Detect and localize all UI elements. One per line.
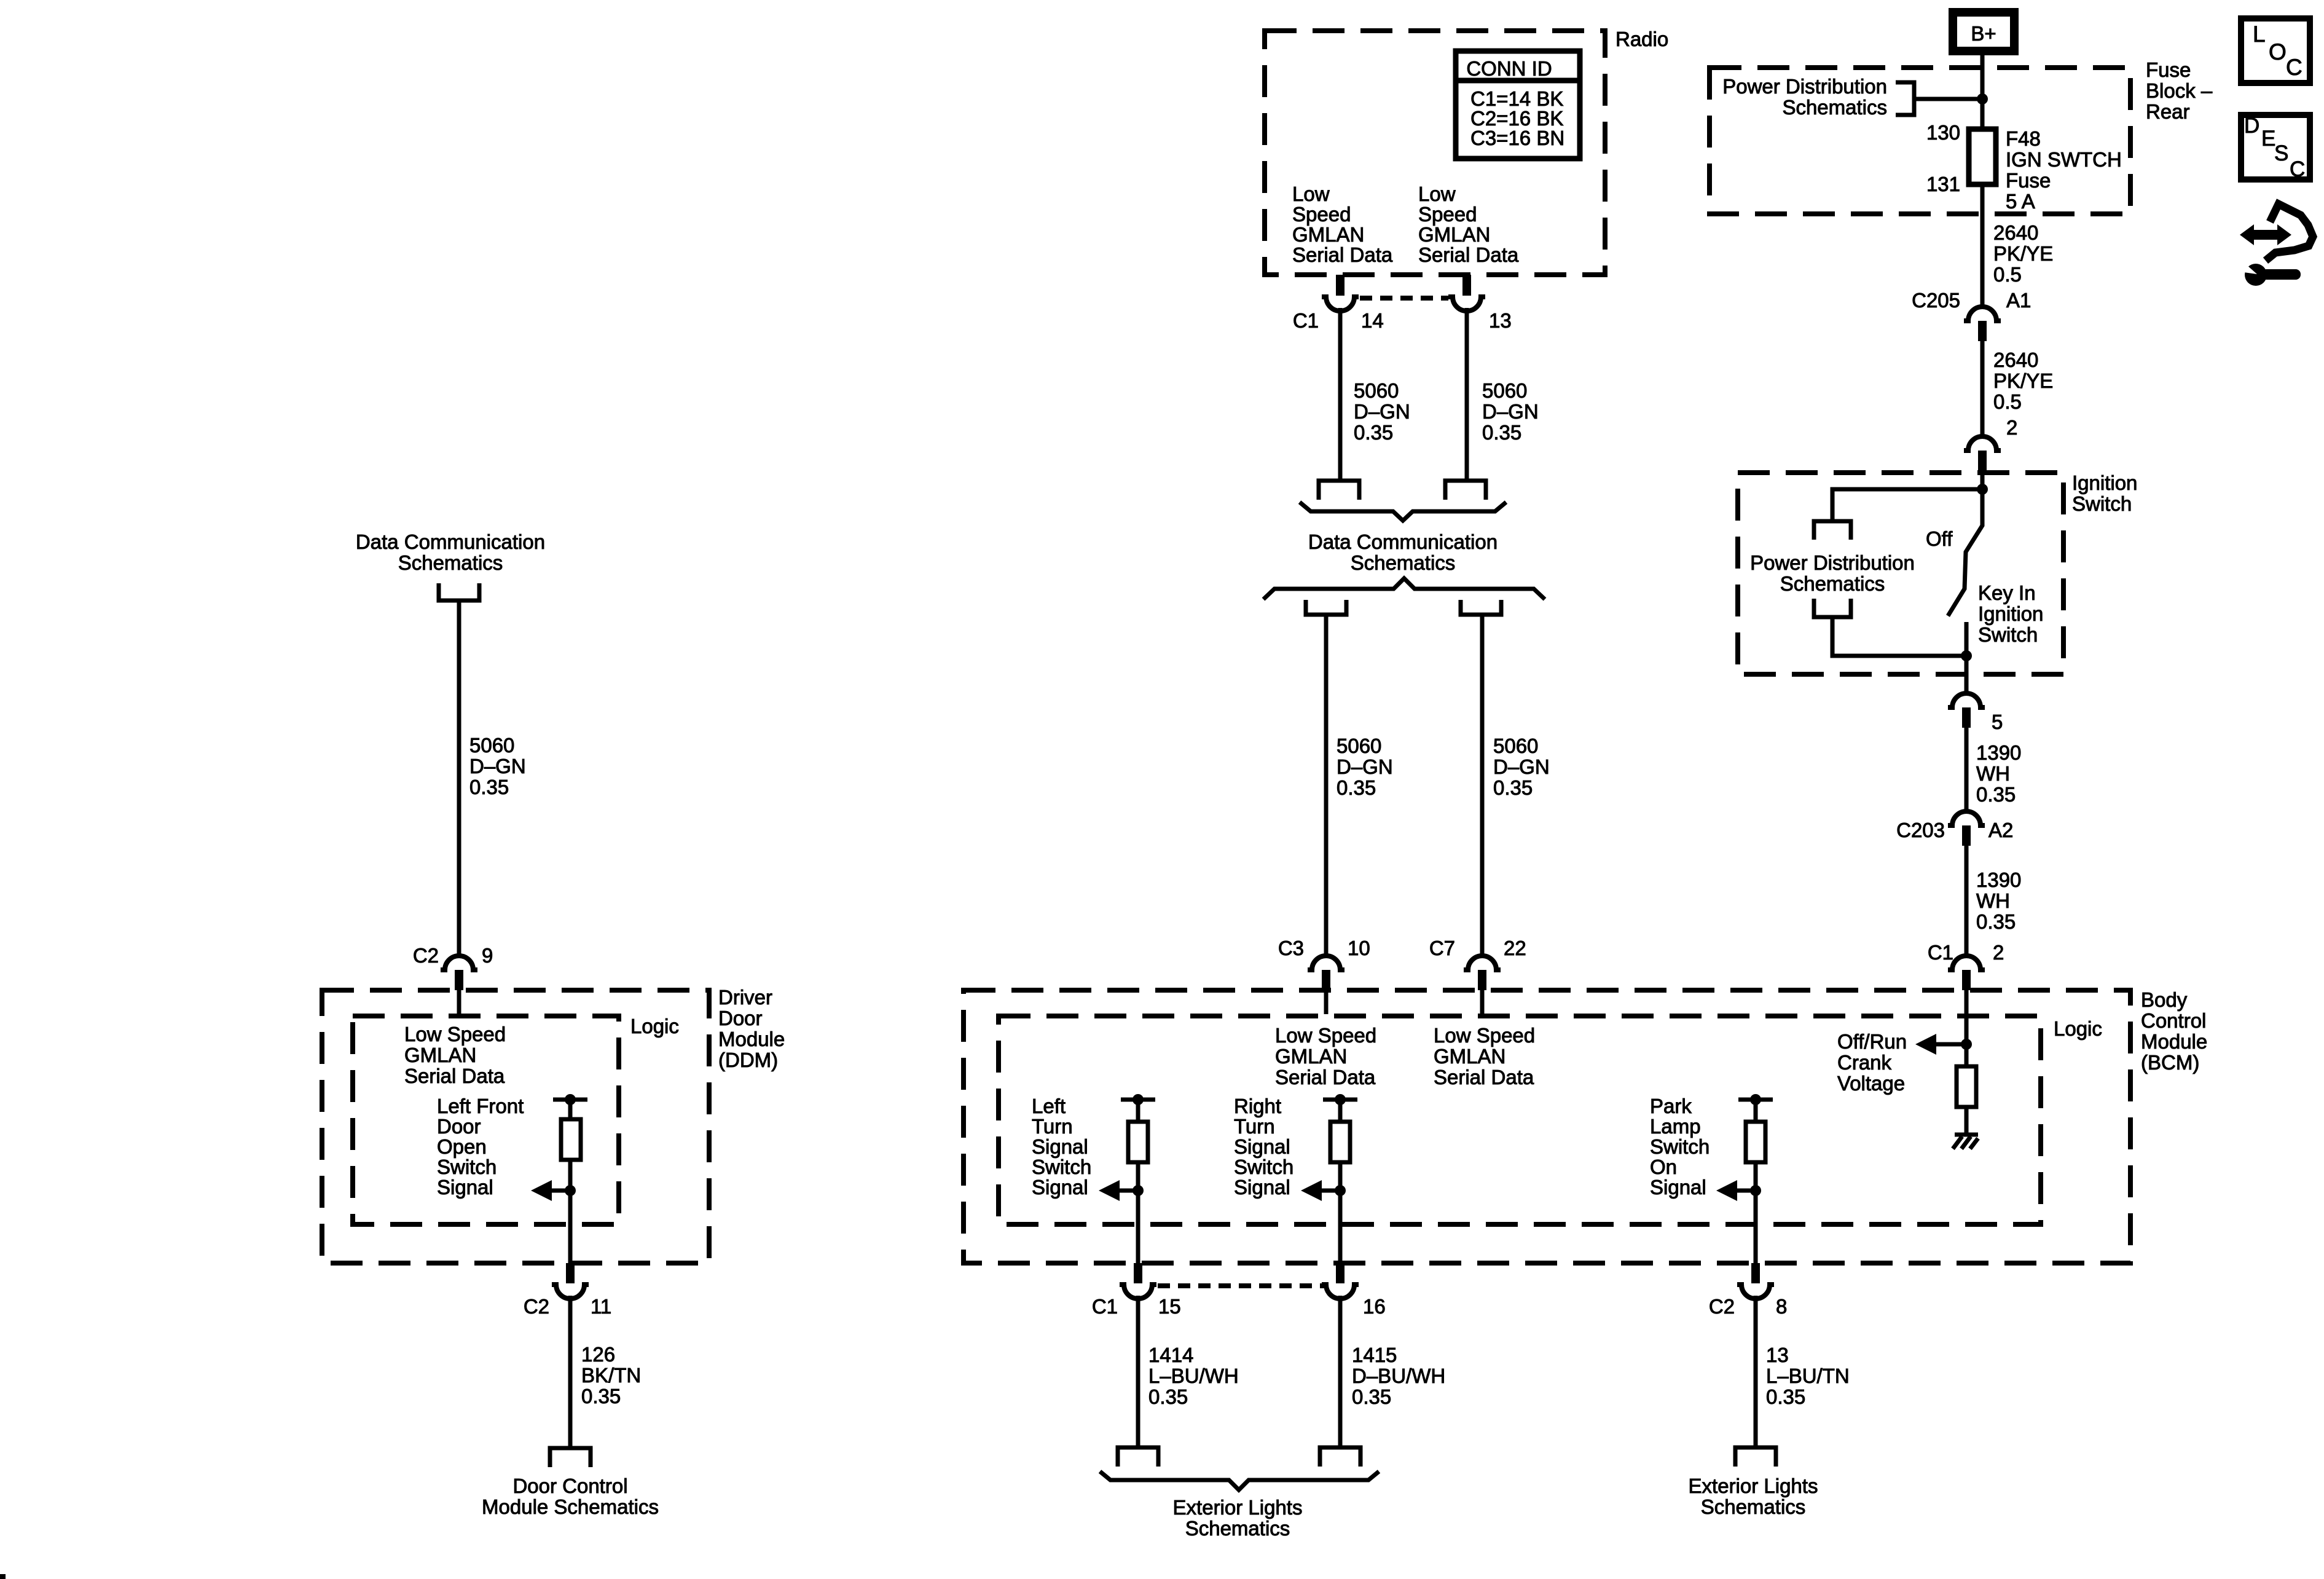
wire: T-bar to resistor	[568, 1100, 573, 1119]
svg-text:Signal: Signal	[1234, 1135, 1290, 1158]
connector C205 pin A1	[1912, 289, 2031, 341]
connector C1 pin 16 (BCM bottom)	[1322, 1263, 1386, 1318]
arrow: Left Turn Signal Switch Signal	[1099, 1180, 1138, 1201]
bracket: power distribution reference upper	[1814, 521, 1851, 540]
wire: DDM internal pull-up T-bar	[553, 1098, 587, 1102]
wire: switch lower contact	[1965, 622, 1969, 694]
icon: LOC reference box	[2241, 18, 2310, 83]
svg-text:Switch: Switch	[437, 1156, 497, 1178]
svg-text:F48: F48	[2006, 127, 2041, 150]
svg-text:Logic: Logic	[2054, 1017, 2102, 1040]
arrow: Off/Run Crank Voltage	[1915, 1034, 1966, 1055]
terminal: off-page destination (1414)	[1118, 1447, 1158, 1467]
svg-text:Signal: Signal	[437, 1176, 493, 1199]
bracket: power distribution reference lower	[1814, 599, 1851, 617]
resistor: right-turn pull-up	[1330, 1122, 1350, 1162]
svg-text:Park: Park	[1650, 1095, 1692, 1117]
svg-text:11: 11	[591, 1295, 611, 1318]
label: wire 1390 WH 0.35 (upper)	[1976, 741, 2021, 806]
svg-text:5060: 5060	[1493, 734, 1538, 757]
svg-text:C: C	[2286, 55, 2302, 80]
label: wire 5060 D-GN 0.35	[469, 734, 526, 798]
svg-text:Door: Door	[718, 1007, 763, 1030]
svg-text:(BCM): (BCM)	[2141, 1051, 2199, 1074]
svg-text:5060: 5060	[1354, 379, 1399, 402]
icon: diagnostic arrow with wrench	[2235, 204, 2313, 286]
resistor: left-turn pull-up	[1128, 1122, 1148, 1162]
svg-text:Right: Right	[1234, 1095, 1281, 1117]
svg-text:Left Front: Left Front	[437, 1095, 524, 1117]
svg-text:Crank: Crank	[1837, 1051, 1892, 1074]
node: Low Speed GMLAN Serial Data (Radio pin 13)	[1418, 183, 1519, 266]
svg-text:IGN SWTCH: IGN SWTCH	[2006, 148, 2122, 171]
svg-text:Schematics: Schematics	[398, 551, 503, 574]
wire: park-lamp pull-up T-bar	[1738, 1098, 1773, 1102]
svg-text:GMLAN: GMLAN	[1275, 1045, 1347, 1068]
svg-text:Schematics: Schematics	[1782, 96, 1887, 119]
wire: 1390 WH from pin 5 to C203	[1965, 728, 1969, 811]
brace: above lower wires pointing up	[1263, 578, 1545, 599]
svg-text:Serial Data: Serial Data	[404, 1065, 505, 1087]
node: Door Control Module Schematics label	[482, 1475, 659, 1518]
bracket: power distribution schematics reference	[1896, 82, 1914, 115]
svg-text:131: 131	[1926, 173, 1960, 195]
svg-text:Serial Data: Serial Data	[1418, 243, 1519, 266]
svg-text:(DDM): (DDM)	[718, 1049, 778, 1071]
wire: fuse to C205	[1981, 184, 1985, 306]
svg-text:Open: Open	[437, 1135, 487, 1158]
resistor: DDM door switch pull-up	[561, 1119, 581, 1160]
svg-text:130: 130	[1926, 121, 1960, 144]
svg-text:5060: 5060	[1337, 734, 1381, 757]
svg-text:Off: Off	[1926, 527, 1953, 550]
svg-text:1390: 1390	[1976, 868, 2021, 891]
svg-text:Rear: Rear	[2146, 100, 2190, 123]
svg-text:C1: C1	[1092, 1295, 1118, 1318]
junction: off/run crank voltage tap	[1961, 1039, 1972, 1050]
svg-text:0.35: 0.35	[1337, 776, 1376, 799]
svg-text:Switch: Switch	[1650, 1135, 1710, 1158]
svg-text:D–GN: D–GN	[1493, 755, 1550, 778]
svg-text:C203: C203	[1896, 819, 1945, 841]
wire: 13 L-BU/TN from C2-8 down	[1754, 1296, 1758, 1448]
svg-text:9: 9	[482, 944, 493, 967]
svg-text:126: 126	[581, 1343, 615, 1366]
wire: 1414 L-BU/WH from C1-15 down	[1136, 1296, 1140, 1448]
svg-text:O: O	[2269, 39, 2287, 65]
label: wire 1414 L-BU/WH 0.35	[1148, 1344, 1239, 1408]
fuse F48 IGN SWTCH 5A	[1969, 129, 1996, 184]
svg-text:C2: C2	[413, 944, 439, 967]
node: Power Distribution Schematics (fuse block)	[1722, 75, 1887, 119]
connector C1 pin 15 (BCM bottom)	[1092, 1263, 1181, 1318]
svg-text:Exterior Lights: Exterior Lights	[1689, 1475, 1818, 1497]
junction: DDM pull-up top	[565, 1094, 576, 1105]
label: F48 IGN SWTCH Fuse 5 A	[2006, 127, 2122, 213]
wire: left-turn pull-up T-bar	[1121, 1098, 1155, 1102]
wire: 5060 D-GN from Radio pin 14 down	[1338, 308, 1343, 479]
svg-text:5060: 5060	[1482, 379, 1527, 402]
module box: Driver Door Module (DDM) outer dashed box	[322, 990, 709, 1263]
label: wire 5060 D-GN 0.35 (radio right)	[1482, 379, 1539, 444]
module box: Radio dashed box	[1265, 31, 1605, 275]
svg-text:GMLAN: GMLAN	[404, 1044, 476, 1066]
wire: BCM C1-2 internal	[1965, 990, 1969, 1066]
svg-text:15: 15	[1158, 1295, 1181, 1318]
svg-text:22: 22	[1504, 937, 1526, 959]
wire: 1415 D-BU/WH from C1-16 down	[1338, 1296, 1343, 1448]
svg-text:C2: C2	[1709, 1295, 1735, 1318]
svg-text:0.35: 0.35	[1766, 1385, 1805, 1408]
svg-text:C7: C7	[1429, 937, 1455, 959]
label: wire 5060 D-GN 0.35 (to C3)	[1337, 734, 1393, 799]
connector C1 pin 2 (BCM top)	[1928, 941, 2004, 990]
node: Low Speed GMLAN Serial Data (BCM C7)	[1434, 1024, 1535, 1089]
svg-text:1390: 1390	[1976, 741, 2021, 764]
wire: 5060 D-GN to BCM C3-10	[1324, 615, 1329, 954]
svg-text:0.5: 0.5	[1993, 390, 2022, 413]
svg-text:5 A: 5 A	[2006, 190, 2035, 213]
svg-text:Serial Data: Serial Data	[1434, 1066, 1534, 1089]
svg-text:L–BU/TN: L–BU/TN	[1766, 1364, 1850, 1387]
arrow: Left Front Door Open Switch Signal (points left)	[531, 1180, 570, 1201]
resistor: BCM ignition input	[1957, 1066, 1976, 1107]
svg-text:Logic: Logic	[630, 1015, 679, 1038]
svg-text:BK/TN: BK/TN	[581, 1364, 641, 1387]
power symbol: B+	[1953, 12, 2014, 51]
label: Key In Ignition Switch	[1978, 581, 2043, 646]
svg-text:D–GN: D–GN	[1354, 400, 1410, 423]
label: Ignition Switch	[2072, 471, 2137, 515]
svg-text:Driver: Driver	[718, 986, 772, 1009]
svg-text:D: D	[2244, 114, 2259, 138]
logic box: BCM inner Logic dashed box	[999, 1016, 2041, 1224]
wire: resistor to BCM C2-8	[1754, 1162, 1758, 1263]
svg-text:Switch: Switch	[1978, 623, 2038, 646]
svg-text:Signal: Signal	[1032, 1176, 1088, 1199]
wire: resistor to BCM C1-16	[1338, 1162, 1343, 1263]
label: Fuse Block - Rear	[2146, 58, 2213, 123]
module box: Fuse Block - Rear dashed box	[1710, 68, 2130, 214]
svg-text:Signal: Signal	[1650, 1176, 1706, 1199]
table: CONN ID	[1456, 51, 1580, 159]
svg-text:Schematics: Schematics	[1701, 1495, 1806, 1518]
label: Driver Door Module (DDM)	[718, 986, 785, 1071]
terminal: off-page source (to BCM C7)	[1461, 600, 1501, 615]
junction: left-turn top	[1133, 1094, 1144, 1105]
label: wire 5060 D-GN 0.35 (radio left)	[1354, 379, 1410, 444]
junction: switch output node	[1961, 650, 1972, 661]
switch: ignition switch blade (Off position)	[1948, 489, 1982, 616]
terminal: off-page destination symbol (Door Control Module Schematics)	[550, 1448, 591, 1467]
module box: Body Control Module (BCM) outer dashed box	[964, 990, 2130, 1263]
svg-text:S: S	[2274, 141, 2288, 165]
junction: ignition switch common	[1977, 484, 1988, 495]
svg-text:0.35: 0.35	[1354, 421, 1393, 444]
terminal: off-page destination (radio right wire)	[1445, 481, 1486, 500]
svg-text:2640: 2640	[1993, 348, 2038, 371]
svg-text:5060: 5060	[469, 734, 514, 757]
label: wire 2640 PK/YE 0.5 (lower)	[1993, 348, 2053, 413]
svg-text:B+: B+	[1971, 22, 1996, 45]
svg-text:Signal: Signal	[1032, 1135, 1088, 1158]
svg-text:L–BU/WH: L–BU/WH	[1148, 1364, 1239, 1387]
svg-text:Fuse: Fuse	[2146, 58, 2191, 81]
svg-text:Schematics: Schematics	[1780, 572, 1885, 595]
junction: left-turn signal tap	[1133, 1185, 1144, 1196]
svg-text:PK/YE: PK/YE	[1993, 242, 2053, 265]
node: Right Turn Signal Switch Signal	[1234, 1095, 1294, 1199]
svg-text:Door: Door	[437, 1115, 481, 1138]
svg-text:D–GN: D–GN	[469, 755, 526, 778]
svg-text:Turn: Turn	[1032, 1115, 1073, 1138]
wire: bracket to switch output	[1832, 617, 1966, 656]
svg-text:GMLAN: GMLAN	[1292, 223, 1364, 246]
svg-text:GMLAN: GMLAN	[1434, 1045, 1505, 1068]
connector C203 pin A2	[1896, 811, 2013, 846]
svg-text:C: C	[2290, 157, 2305, 181]
svg-text:C3=16 BN: C3=16 BN	[1470, 127, 1564, 149]
svg-text:Turn: Turn	[1234, 1115, 1275, 1138]
connector: ignition switch pin 2	[1964, 416, 2017, 489]
svg-text:0.35: 0.35	[1976, 910, 2016, 933]
terminal: off-page destination (radio left wire)	[1319, 481, 1359, 500]
svg-text:Block –: Block –	[2146, 79, 2213, 102]
svg-text:D–GN: D–GN	[1337, 755, 1393, 778]
svg-text:E: E	[2261, 127, 2275, 151]
junction: DDM signal tap	[565, 1185, 576, 1196]
node: Left Turn Signal Switch Signal	[1032, 1095, 1091, 1199]
svg-text:Switch: Switch	[1234, 1156, 1294, 1178]
connector: ignition switch pin 5	[1948, 693, 2003, 733]
svg-text:PK/YE: PK/YE	[1993, 369, 2053, 392]
wire: 1390 WH from C203 to BCM C1-2	[1965, 846, 1969, 954]
svg-text:Key In: Key In	[1978, 581, 2036, 604]
svg-text:Ignition: Ignition	[1978, 602, 2043, 625]
svg-text:C1: C1	[1928, 941, 1953, 964]
wire: resistor to ground	[1965, 1107, 1969, 1134]
node: Power Distribution Schematics (ignition switch)	[1750, 551, 1915, 595]
wire: resistor to DDM C2-11	[568, 1160, 573, 1263]
label: wire 1415 D-BU/WH 0.35	[1352, 1344, 1445, 1408]
connector body: dashed link C1 pins 14-13	[1360, 296, 1448, 301]
svg-text:1414: 1414	[1148, 1344, 1193, 1366]
svg-text:Schematics: Schematics	[1351, 551, 1456, 574]
svg-text:16: 16	[1363, 1295, 1386, 1318]
svg-text:8: 8	[1776, 1295, 1787, 1318]
svg-text:2: 2	[1993, 941, 2004, 964]
svg-text:Exterior Lights: Exterior Lights	[1173, 1496, 1303, 1519]
label: wire 13 L-BU/TN 0.35	[1766, 1344, 1850, 1408]
brace: exterior lights group pointing down	[1100, 1471, 1379, 1490]
svg-text:Switch: Switch	[1032, 1156, 1091, 1178]
svg-text:Serial Data: Serial Data	[1275, 1066, 1376, 1089]
wire: resistor to BCM C1-15	[1136, 1162, 1140, 1263]
connector C1 pin 13 (Radio)	[1448, 275, 1512, 332]
node: Low Speed GMLAN Serial Data (Radio pin 14)	[1292, 183, 1393, 266]
arrow: Park Lamp Switch On Signal	[1716, 1180, 1756, 1201]
svg-text:A2: A2	[1988, 819, 2013, 841]
svg-text:WH: WH	[1976, 762, 2010, 785]
wire: 126 BK/TN from DDM C2-11 to Door Control Module Schematics	[568, 1296, 573, 1447]
svg-text:Low: Low	[1292, 183, 1330, 205]
node: Data Communication Schematics (middle label)	[1308, 530, 1498, 574]
svg-text:14: 14	[1361, 309, 1384, 332]
wire: bracket to B+ feed	[1914, 97, 1982, 101]
connector C7 pin 22 (BCM)	[1429, 937, 1526, 1014]
connector body: dashed link C1 pins 15-16	[1158, 1283, 1324, 1288]
svg-text:Power Distribution: Power Distribution	[1722, 75, 1887, 98]
resistor: park-lamp pull-up	[1746, 1122, 1765, 1162]
wire: B+ down into fuse block	[1981, 55, 1985, 129]
label: Body Control Module (BCM)	[2141, 988, 2207, 1074]
svg-text:Low Speed: Low Speed	[404, 1023, 506, 1045]
junction: park-lamp top	[1750, 1094, 1761, 1105]
wire: 5060 D-GN from Data Communication Schematics to DDM C2-9	[457, 600, 461, 954]
svg-text:Off/Run: Off/Run	[1837, 1030, 1907, 1053]
svg-text:On: On	[1650, 1156, 1677, 1178]
svg-text:Speed: Speed	[1418, 203, 1477, 226]
svg-text:C205: C205	[1912, 289, 1960, 312]
label: wire 126 BK/TN 0.35	[581, 1343, 641, 1408]
svg-text:0.35: 0.35	[1493, 776, 1533, 799]
terminal: off-page destination (13 L-BU/TN)	[1735, 1447, 1776, 1467]
svg-text:C1: C1	[1293, 309, 1319, 332]
svg-text:0.35: 0.35	[1148, 1385, 1188, 1408]
svg-text:10: 10	[1348, 937, 1370, 959]
node: Data Communication Schematics (top-left off-page label)	[356, 530, 545, 574]
svg-text:Body: Body	[2141, 988, 2188, 1011]
svg-text:5: 5	[1992, 711, 2003, 733]
svg-text:Module Schematics: Module Schematics	[482, 1495, 659, 1518]
svg-text:Door Control: Door Control	[512, 1475, 627, 1497]
svg-text:Signal: Signal	[1234, 1176, 1290, 1199]
svg-text:D–GN: D–GN	[1482, 400, 1539, 423]
svg-text:L: L	[2253, 22, 2266, 47]
arrow: Right Turn Signal Switch Signal	[1301, 1180, 1340, 1201]
svg-text:C2: C2	[524, 1295, 549, 1318]
label: wire 5060 D-GN 0.35 (to C7)	[1493, 734, 1550, 799]
wire: common to bracket leg	[1832, 489, 1982, 519]
svg-text:0.35: 0.35	[1482, 421, 1521, 444]
svg-text:WH: WH	[1976, 889, 2010, 912]
svg-text:0.35: 0.35	[581, 1385, 621, 1408]
svg-text:Ignition: Ignition	[2072, 471, 2137, 494]
svg-text:Voltage: Voltage	[1837, 1072, 1905, 1095]
junction: right-turn signal tap	[1335, 1185, 1346, 1196]
wire: T-bar to resistor	[1754, 1100, 1758, 1122]
wire: 2640 PK/YE from C205 to ignition switch pin 2	[1981, 341, 1985, 436]
svg-text:Data Communication: Data Communication	[356, 530, 545, 553]
wire: T-bar to resistor	[1338, 1100, 1343, 1122]
icon: DESC reference box	[2241, 114, 2310, 181]
node: Low Speed GMLAN Serial Data (DDM)	[404, 1023, 506, 1087]
connector C2 pin 9 (DDM)	[413, 944, 493, 1014]
svg-text:Data Communication: Data Communication	[1308, 530, 1498, 553]
junction: B+ feed node	[1977, 93, 1988, 104]
svg-text:Low: Low	[1418, 183, 1456, 205]
connector C3 pin 10 (BCM)	[1278, 937, 1370, 1014]
svg-text:0.35: 0.35	[1352, 1385, 1391, 1408]
svg-text:13: 13	[1766, 1344, 1789, 1366]
svg-text:0.35: 0.35	[469, 776, 509, 798]
wire: 5060 D-GN to BCM C7-22	[1480, 615, 1485, 954]
node: Exterior Lights Schematics (park lamp)	[1689, 1475, 1818, 1518]
node: Park Lamp Switch On Signal	[1650, 1095, 1710, 1199]
connector C2 pin 8 (BCM bottom)	[1709, 1263, 1788, 1318]
svg-text:GMLAN: GMLAN	[1418, 223, 1490, 246]
svg-text:Fuse: Fuse	[2006, 169, 2051, 192]
mark: page corner artifact	[0, 1574, 6, 1579]
node: Off/Run Crank Voltage	[1837, 1030, 1907, 1095]
terminal: off-page source (to BCM C3)	[1306, 600, 1346, 615]
svg-text:0.35: 0.35	[1976, 783, 2016, 806]
junction: right-turn top	[1335, 1094, 1346, 1105]
module box: Ignition Switch dashed box	[1738, 473, 2063, 674]
svg-text:D–BU/WH: D–BU/WH	[1352, 1364, 1445, 1387]
wire: right-turn pull-up T-bar	[1323, 1098, 1357, 1102]
connector C1 pin 14 (Radio)	[1293, 275, 1384, 332]
svg-text:Power Distribution: Power Distribution	[1750, 551, 1915, 574]
svg-text:Radio: Radio	[1615, 28, 1668, 50]
svg-text:2: 2	[2006, 416, 2017, 439]
wire: T-bar to resistor	[1136, 1100, 1140, 1122]
svg-text:Left: Left	[1032, 1095, 1066, 1117]
svg-text:Module: Module	[2141, 1030, 2207, 1053]
terminal: off-page source symbol (left)	[439, 583, 479, 600]
ground: BCM internal ground	[1953, 1135, 1978, 1149]
svg-text:0.5: 0.5	[1993, 263, 2022, 286]
connector C2 pin 11 (DDM bottom)	[524, 1263, 611, 1318]
label: wire 1390 WH 0.35 (lower)	[1976, 868, 2021, 933]
node: Exterior Lights Schematics (left group)	[1173, 1496, 1303, 1540]
svg-text:Serial Data: Serial Data	[1292, 243, 1393, 266]
svg-text:Schematics: Schematics	[1185, 1517, 1290, 1540]
svg-text:13: 13	[1489, 309, 1512, 332]
svg-text:2640: 2640	[1993, 221, 2038, 244]
terminal: off-page destination (1415)	[1320, 1447, 1360, 1467]
svg-text:C3: C3	[1278, 937, 1304, 959]
svg-text:Switch: Switch	[2072, 492, 2132, 515]
svg-text:CONN ID: CONN ID	[1466, 57, 1552, 80]
wire: 5060 D-GN from Radio pin 13 down	[1465, 308, 1469, 479]
brace: under radio wires pointing down	[1300, 502, 1506, 521]
svg-text:Speed: Speed	[1292, 203, 1351, 226]
node: Left Front Door Open Switch Signal	[437, 1095, 524, 1199]
svg-text:A1: A1	[2006, 289, 2031, 312]
label: wire 2640 PK/YE 0.5 (upper)	[1993, 221, 2053, 286]
logic box: DDM inner Logic dashed box	[353, 1016, 619, 1224]
svg-text:Module: Module	[718, 1028, 785, 1050]
svg-text:Low Speed: Low Speed	[1275, 1024, 1376, 1047]
svg-text:1415: 1415	[1352, 1344, 1397, 1366]
svg-text:Control: Control	[2141, 1009, 2206, 1032]
svg-text:Low Speed: Low Speed	[1434, 1024, 1535, 1047]
node: Low Speed GMLAN Serial Data (BCM C3)	[1275, 1024, 1376, 1089]
junction: park-lamp signal tap	[1750, 1185, 1761, 1196]
svg-text:Lamp: Lamp	[1650, 1115, 1701, 1138]
